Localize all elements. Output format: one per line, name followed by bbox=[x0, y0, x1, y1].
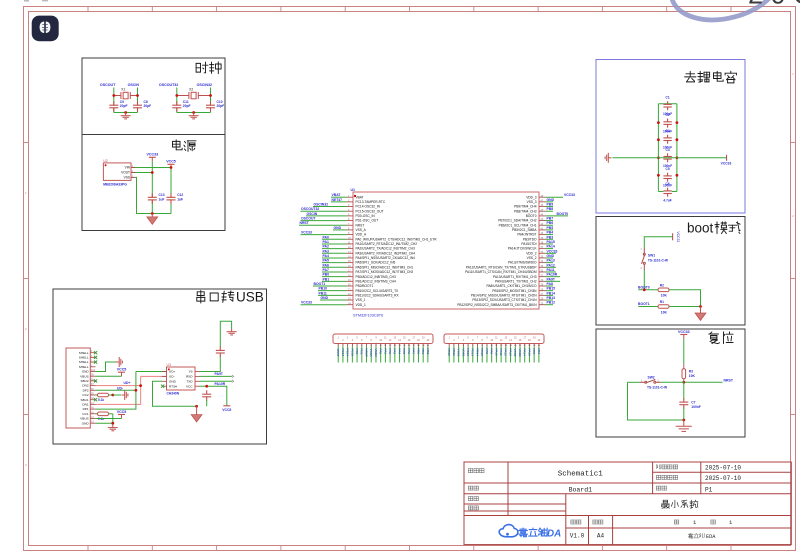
net port arrows bbox=[232, 375, 234, 382]
power flag VCC33 bbox=[680, 335, 687, 339]
wire P2 pin8 bbox=[481, 347, 483, 363]
svg-text:BOOT0: BOOT0 bbox=[557, 212, 569, 216]
svg-text:SW1: SW1 bbox=[648, 254, 655, 258]
svg-text:UD-: UD- bbox=[169, 375, 175, 379]
wire U1 pin33 net PA12 bbox=[546, 266, 557, 268]
wire VOUT-VCC33 bbox=[135, 172, 152, 174]
svg-text:PB12/SPI2_NSS/I2C2_SMBA/USART3: PB12/SPI2_NSS/I2C2_SMBA/USART3_CK/TIM1_B… bbox=[457, 303, 537, 307]
wire U1 pin40 net PB4 bbox=[546, 234, 554, 236]
svg-text:PB0/ADC12_IN8/TIM3_CH3: PB0/ADC12_IN8/TIM3_CH3 bbox=[356, 275, 396, 279]
wire P1 pin20 bbox=[427, 347, 429, 363]
wire P1 pin1 bbox=[337, 347, 339, 363]
ground bbox=[191, 406, 202, 422]
svg-text:C13: C13 bbox=[159, 193, 165, 197]
svg-text:PB5: PB5 bbox=[547, 226, 554, 230]
svg-text:VBUS: VBUS bbox=[80, 374, 88, 378]
wire U1 pin12 net PA2 bbox=[322, 248, 347, 250]
svg-text:VSS_2: VSS_2 bbox=[527, 256, 537, 260]
svg-text:20pF: 20pF bbox=[183, 104, 191, 108]
power flag VCC5 bbox=[118, 372, 125, 376]
wire P2 pin10 bbox=[491, 347, 493, 363]
svg-text:CC1: CC1 bbox=[82, 412, 88, 416]
no-connect RTS# bbox=[161, 385, 164, 388]
wire P1 pin10 bbox=[380, 347, 382, 363]
junction bbox=[192, 111, 195, 114]
junction bbox=[205, 385, 208, 388]
svg-text:VCC33: VCC33 bbox=[301, 231, 312, 235]
wire VBUS bbox=[96, 375, 122, 377]
wire SW1 to BOOT0 bbox=[643, 270, 645, 290]
capacitor C15 bbox=[202, 395, 211, 397]
svg-text:VSS_3: VSS_3 bbox=[527, 200, 537, 204]
ground bbox=[121, 113, 131, 119]
svg-text:PB3: PB3 bbox=[532, 349, 536, 355]
pin stubs U1 bbox=[347, 197, 546, 305]
section box 串口转USB bbox=[53, 289, 267, 444]
junction bbox=[112, 94, 115, 97]
wire P2 pin9 bbox=[486, 347, 488, 363]
svg-text:VSS2: VSS2 bbox=[513, 349, 517, 357]
title 复位 bbox=[709, 332, 733, 344]
svg-text:PA15: PA15 bbox=[547, 240, 555, 244]
svg-text:PB9/TIM4_CH4: PB9/TIM4_CH4 bbox=[514, 205, 537, 209]
svg-text:PB8: PB8 bbox=[547, 207, 554, 211]
svg-text:GND: GND bbox=[82, 370, 90, 374]
wire U1 pin26 net PB13 bbox=[546, 299, 554, 301]
capacitor C13 bbox=[148, 198, 157, 200]
svg-text:PB0: PB0 bbox=[323, 273, 330, 277]
wire net OSCIN bbox=[137, 88, 139, 113]
svg-text:C2: C2 bbox=[666, 113, 670, 117]
wire U1 pin11 net PA1 bbox=[322, 243, 347, 245]
title 电源 bbox=[173, 140, 197, 152]
wire U1 pin1 net VBAT bbox=[331, 196, 347, 198]
svg-text:R1: R1 bbox=[660, 300, 664, 304]
svg-text:PC14: PC14 bbox=[346, 349, 350, 357]
svg-text:PB5/I2C1_SMBA: PB5/I2C1_SMBA bbox=[512, 228, 537, 232]
wire U1 pin35 net GND bbox=[546, 257, 554, 259]
wire V3 to cap bbox=[200, 321, 232, 371]
svg-text:VDD_A: VDD_A bbox=[356, 233, 368, 237]
svg-text:UD-: UD- bbox=[117, 386, 123, 390]
svg-text:2 0 C: 2 0 C bbox=[748, 0, 800, 10]
svg-text:VDD_2: VDD_2 bbox=[526, 251, 537, 255]
junction bbox=[682, 419, 685, 422]
wire net OSCOUT32 bbox=[176, 88, 178, 113]
svg-text:PB6: PB6 bbox=[547, 221, 554, 225]
wire U1 pin22 net PB11 bbox=[318, 294, 347, 296]
section box 去耦电容 bbox=[596, 60, 745, 214]
wire U1 pin36 net VCC33 bbox=[546, 252, 557, 254]
wire VCC U3 bbox=[200, 386, 227, 406]
svg-text:PB2/BOOT1: PB2/BOOT1 bbox=[356, 284, 374, 288]
svg-text:PA5: PA5 bbox=[402, 349, 406, 355]
wire P1 pin17 bbox=[413, 347, 415, 363]
wire P1 pin19 bbox=[422, 347, 424, 363]
wire U1 pin21 net PB10 bbox=[318, 290, 347, 292]
ground (rotated) bbox=[605, 153, 611, 163]
svg-text:VIN: VIN bbox=[125, 166, 131, 170]
wire U1 pin47 net GND bbox=[546, 201, 554, 203]
wire U1 pin30 net PA9T bbox=[546, 280, 561, 282]
wire P1 pin14 bbox=[399, 347, 401, 363]
wire U1 pin5 net OSCIN bbox=[306, 215, 347, 217]
svg-text:PA14: PA14 bbox=[547, 245, 555, 249]
svg-text:VCC33: VCC33 bbox=[547, 249, 558, 253]
chip U3 bbox=[167, 367, 196, 390]
field 原理图 bbox=[468, 469, 484, 473]
svg-text:VDDA: VDDA bbox=[374, 349, 378, 359]
svg-text:OSCOUT: OSCOUT bbox=[100, 83, 116, 87]
wire CC2 gnd bbox=[113, 394, 121, 396]
svg-text:20pF: 20pF bbox=[144, 104, 152, 108]
svg-text:PA7: PA7 bbox=[323, 268, 329, 272]
svg-text:PA1: PA1 bbox=[383, 349, 387, 355]
svg-text:PA4/SPI1_NSS/USART2_CK/ADC12_I: PA4/SPI1_NSS/USART2_CK/ADC12_IN4 bbox=[356, 256, 416, 260]
wire U1 pin19 net PB1 bbox=[322, 280, 347, 282]
svg-text:PB7: PB7 bbox=[547, 217, 554, 221]
svg-text:C5: C5 bbox=[666, 167, 670, 171]
wire NRST to C7 bbox=[683, 382, 685, 399]
pin stubs U3 bbox=[162, 372, 200, 387]
wire U1 pin9 net VCC33 bbox=[301, 234, 347, 236]
connector P2 bbox=[444, 334, 544, 344]
svg-text:PC13-TAMPER-RTC: PC13-TAMPER-RTC bbox=[356, 200, 386, 204]
svg-text:GND: GND bbox=[334, 226, 342, 230]
field 尺寸 bbox=[593, 520, 603, 524]
svg-text:VCC33: VCC33 bbox=[564, 193, 575, 197]
wire U1 pin6 net OSCOUT bbox=[301, 220, 347, 222]
wire U1 pin43 net PB7 bbox=[546, 220, 554, 222]
wire U1 pin4 net OSCOUT32 bbox=[301, 210, 347, 212]
wire net UD+ (pink) bbox=[96, 376, 167, 404]
svg-text:VBAT: VBAT bbox=[356, 195, 364, 199]
svg-text:TS-1101-C-W: TS-1101-C-W bbox=[648, 258, 669, 262]
svg-text:PA13: PA13 bbox=[547, 259, 555, 263]
wire P2 pin11 bbox=[495, 347, 497, 363]
wire U1 pin34 net PA13 bbox=[546, 262, 554, 264]
svg-text:BOOT1: BOOT1 bbox=[638, 302, 650, 306]
svg-text:C10: C10 bbox=[217, 100, 223, 104]
svg-text:PA0: PA0 bbox=[323, 235, 329, 239]
power flag VCC5 bbox=[168, 164, 175, 168]
svg-text:PA13: PA13 bbox=[509, 349, 513, 357]
svg-text:PA10: PA10 bbox=[494, 349, 498, 357]
svg-text:PD0-OSC_IN: PD0-OSC_IN bbox=[356, 214, 376, 218]
junction bbox=[139, 384, 142, 387]
svg-text:PA9T: PA9T bbox=[215, 372, 224, 376]
wire U1 pin23 net GND bbox=[320, 299, 347, 301]
svg-text:OSCOUT: OSCOUT bbox=[301, 217, 316, 221]
wire U1 pin38 net PA15 bbox=[546, 243, 554, 245]
svg-text:SHELL: SHELL bbox=[79, 351, 89, 355]
svg-text:PA4: PA4 bbox=[398, 349, 402, 355]
svg-text:PA3: PA3 bbox=[323, 249, 329, 253]
regulator U2 bbox=[103, 163, 131, 181]
ground bbox=[676, 420, 692, 431]
ground (rotated) bbox=[122, 390, 128, 400]
wire P2 pin6 bbox=[472, 347, 474, 363]
svg-text:PA5/SPI1_SCK/ADC12_IN5: PA5/SPI1_SCK/ADC12_IN5 bbox=[356, 261, 396, 265]
wire U1 pin37 net PA14 bbox=[546, 248, 554, 250]
svg-text:PA15: PA15 bbox=[527, 349, 531, 357]
svg-text:UD+: UD+ bbox=[124, 381, 131, 385]
svg-text:DP1: DP1 bbox=[83, 407, 89, 411]
svg-text:TXD: TXD bbox=[186, 379, 193, 383]
svg-text:GND: GND bbox=[547, 198, 555, 202]
svg-text:PB11: PB11 bbox=[319, 291, 327, 295]
svg-text:PC15: PC15 bbox=[350, 349, 354, 357]
svg-text:A4: A4 bbox=[597, 533, 605, 540]
wire U1 pin46 net PB9 bbox=[546, 206, 554, 208]
svg-text:C8: C8 bbox=[144, 100, 148, 104]
svg-text:VBAT: VBAT bbox=[336, 349, 340, 357]
wire gnd rail bbox=[114, 112, 138, 114]
svg-text:VCC5: VCC5 bbox=[117, 410, 127, 414]
title 去耦电容 bbox=[685, 71, 737, 83]
svg-text:PB1: PB1 bbox=[421, 349, 425, 355]
svg-text:1uF: 1uF bbox=[159, 198, 165, 202]
svg-text:VDD_3: VDD_3 bbox=[526, 195, 537, 199]
svg-text:PB14/SPI2_MISO/USART3_RTS/TIM1: PB14/SPI2_MISO/USART3_RTS/TIM1_CH2N bbox=[471, 293, 537, 297]
pin numbers U1 bbox=[348, 195, 544, 305]
svg-text:boot: boot bbox=[687, 221, 714, 236]
svg-text:1uF: 1uF bbox=[177, 198, 183, 202]
wire net VCC5 vertical bbox=[170, 168, 172, 213]
wire cap to gnd rail bbox=[206, 400, 208, 406]
wire P1 pin16 bbox=[408, 347, 410, 363]
svg-text:NRST: NRST bbox=[364, 349, 368, 358]
svg-text:USB: USB bbox=[236, 290, 264, 305]
wire decoupling rails bbox=[658, 104, 677, 192]
svg-text:PB1: PB1 bbox=[323, 277, 330, 281]
wire VCC33 to R3 bbox=[683, 339, 685, 364]
svg-text:PD1-OSC_OUT: PD1-OSC_OUT bbox=[356, 219, 379, 223]
wire CC1 down bbox=[112, 414, 114, 423]
wire U1 pin48 net VCC33 bbox=[546, 196, 564, 198]
svg-text:PB7/I2C1_SDA/TIM4_CH2: PB7/I2C1_SDA/TIM4_CH2 bbox=[498, 219, 536, 223]
title 串口转USB bbox=[197, 291, 234, 304]
svg-text:U2: U2 bbox=[103, 159, 107, 163]
wire P2 pin14 bbox=[510, 347, 512, 363]
wire P2 pin20 bbox=[538, 347, 540, 363]
svg-text:VCC5: VCC5 bbox=[166, 159, 176, 163]
svg-text:X2: X2 bbox=[189, 88, 193, 92]
svg-text:Board1: Board1 bbox=[569, 486, 593, 493]
wire P1 pin5 bbox=[356, 347, 358, 363]
svg-text:PA0: PA0 bbox=[379, 349, 383, 355]
wire P1 pin4 bbox=[351, 347, 353, 363]
svg-text:PB4/JNTRST: PB4/JNTRST bbox=[517, 233, 536, 237]
wire U1 pin17 net PA7 bbox=[322, 271, 347, 273]
field 画页 bbox=[656, 486, 666, 490]
wire P2 pin12 bbox=[500, 347, 502, 363]
wire P1 pin11 bbox=[384, 347, 386, 363]
svg-text:PB13/SPI2_SCK/USART3_CTS/TIM1_: PB13/SPI2_SCK/USART3_CTS/TIM1_CH1N bbox=[472, 298, 537, 302]
wire U1 pin29 net PA8 bbox=[546, 285, 554, 287]
svg-text:NRST: NRST bbox=[724, 378, 734, 382]
svg-text:SBU2: SBU2 bbox=[81, 379, 89, 383]
svg-text:NRST: NRST bbox=[300, 221, 310, 225]
svg-text:SBU1: SBU1 bbox=[81, 398, 89, 402]
svg-text:PB10/I2C2_SCL/USART3_TX: PB10/I2C2_SCL/USART3_TX bbox=[356, 289, 400, 293]
svg-text:PB13: PB13 bbox=[547, 296, 556, 300]
svg-text:VOUT: VOUT bbox=[121, 171, 130, 175]
svg-text:PA10R: PA10R bbox=[215, 382, 226, 386]
svg-text:PA9: PA9 bbox=[490, 349, 494, 355]
resistor R5 5.1k bbox=[96, 413, 98, 415]
wire R1 to gnd bbox=[669, 306, 701, 308]
wire U1 pin14 net PA4 bbox=[322, 257, 347, 259]
svg-text:NET47: NET47 bbox=[332, 198, 343, 202]
pin stubs USB1 bbox=[90, 353, 95, 424]
svg-text:PB4: PB4 bbox=[537, 349, 541, 355]
wire U1 pin8 net GND bbox=[333, 229, 347, 231]
svg-text:PA9/USART1_TX/TIM1_CH2: PA9/USART1_TX/TIM1_CH2 bbox=[495, 279, 537, 283]
crystal X2 bbox=[177, 92, 211, 99]
svg-text:PB6/I2C1_SCL/TIM4_CH1: PB6/I2C1_SCL/TIM4_CH1 bbox=[499, 223, 537, 227]
no-connect marks bbox=[94, 351, 97, 401]
svg-text:VDD_1: VDD_1 bbox=[356, 303, 367, 307]
wire U1 pin44 net BOOT0 bbox=[546, 215, 569, 217]
wire P1 pin12 bbox=[389, 347, 391, 363]
svg-text:PA8: PA8 bbox=[485, 349, 489, 355]
svg-text:10K: 10K bbox=[661, 294, 668, 298]
svg-text:PB8/TIM4_CH3: PB8/TIM4_CH3 bbox=[514, 209, 537, 213]
svg-text:PB11/I2C2_SDA/USART3_RX: PB11/I2C2_SDA/USART3_RX bbox=[356, 293, 400, 297]
svg-text:PA1/USART2_RTS/ADC12_IN1/TIM2_: PA1/USART2_RTS/ADC12_IN1/TIM2_CH2 bbox=[356, 242, 418, 246]
svg-text:PB1/ADC12_IN9/TIM3_CH4: PB1/ADC12_IN9/TIM3_CH4 bbox=[356, 279, 396, 283]
svg-text:20pF: 20pF bbox=[217, 104, 225, 108]
wire P1 pin7 bbox=[366, 347, 368, 363]
svg-text:PA7/SPI1_MOSI/ADC12_IN7/TIM3_C: PA7/SPI1_MOSI/ADC12_IN7/TIM3_CH2 bbox=[356, 270, 414, 274]
svg-text:C4: C4 bbox=[666, 148, 670, 152]
svg-text:PA2: PA2 bbox=[323, 245, 329, 249]
wire net UD- (green+pink) bbox=[96, 372, 167, 410]
svg-text:VBUS: VBUS bbox=[80, 417, 88, 421]
svg-text:PA11: PA11 bbox=[499, 349, 503, 356]
svg-text:U1: U1 bbox=[351, 188, 356, 192]
wire U1 pin3 net OSCIN32 bbox=[313, 206, 347, 208]
svg-text:PB14: PB14 bbox=[475, 349, 479, 357]
power flag VCC33 (rotated) bbox=[672, 233, 674, 240]
svg-text:PB13: PB13 bbox=[471, 349, 475, 357]
svg-text:OSCOUT32: OSCOUT32 bbox=[159, 83, 178, 87]
svg-text:C1: C1 bbox=[666, 96, 670, 100]
svg-text:VCC33: VCC33 bbox=[721, 161, 732, 165]
svg-text:PA13/JTMS/SWDIO: PA13/JTMS/SWDIO bbox=[508, 261, 537, 265]
svg-text:PA11/USART1_CTS/CAN_RX/TIM1_CH: PA11/USART1_CTS/CAN_RX/TIM1_CH4/USBDM bbox=[465, 270, 537, 274]
svg-text:SHELL: SHELL bbox=[79, 360, 89, 364]
svg-text:20pF: 20pF bbox=[120, 104, 128, 108]
wire U1 pin45 net PB8 bbox=[546, 210, 554, 212]
wire P2 pin5 bbox=[467, 347, 469, 363]
power flag VCC5 bbox=[118, 415, 125, 419]
field 嘉立创EDA text bbox=[688, 533, 704, 538]
svg-text:OSCIN: OSCIN bbox=[128, 83, 140, 87]
junction bbox=[175, 94, 178, 97]
wire U1 pin10 net PA0 bbox=[322, 238, 347, 240]
svg-text:PB3: PB3 bbox=[547, 235, 554, 239]
wire P2 pin19 bbox=[533, 347, 535, 363]
wire BOOT1 row bbox=[638, 306, 658, 308]
wire GND2 bbox=[96, 422, 113, 424]
capacitor C7 100nF bbox=[679, 403, 688, 405]
wire P1 pin9 bbox=[375, 347, 377, 363]
svg-text:DP2: DP2 bbox=[83, 388, 89, 392]
svg-text:PB12: PB12 bbox=[547, 301, 556, 305]
svg-text:V1.0: V1.0 bbox=[570, 533, 585, 540]
svg-text:VSS: VSS bbox=[124, 176, 130, 180]
svg-text:U3: U3 bbox=[167, 363, 171, 367]
title block bbox=[464, 462, 791, 545]
svg-text:C11: C11 bbox=[183, 100, 189, 104]
capacitor C10 bbox=[206, 106, 215, 108]
svg-text:ME6206A33PG: ME6206A33PG bbox=[103, 183, 127, 187]
ground bbox=[695, 307, 706, 321]
svg-text:VSS_A: VSS_A bbox=[356, 228, 367, 232]
svg-text:PA6: PA6 bbox=[323, 263, 329, 267]
svg-text:CC2: CC2 bbox=[82, 393, 88, 397]
MCU U1 STM32F103C8T6 bbox=[353, 192, 539, 309]
capacitor C14 bbox=[216, 351, 225, 353]
svg-text:PA3: PA3 bbox=[393, 349, 397, 355]
wire P1 pin2 bbox=[342, 347, 344, 363]
svg-text:PA11: PA11 bbox=[547, 268, 555, 272]
wire U1 pin7 net NRST bbox=[299, 224, 347, 226]
svg-text:PB10: PB10 bbox=[447, 349, 451, 357]
wire P1 pin3 bbox=[347, 347, 349, 363]
ground (rotated) bbox=[116, 357, 122, 367]
svg-text:PC15-OSC32_OUT: PC15-OSC32_OUT bbox=[356, 209, 384, 213]
svg-text:SHELL: SHELL bbox=[79, 356, 89, 360]
wire TXD PA10R bbox=[200, 380, 232, 382]
svg-text:PA0_WKUP/USART2_CTS/ADC12_IN0/: PA0_WKUP/USART2_CTS/ADC12_IN0/TIM2_CH1_E… bbox=[356, 237, 438, 241]
junction bbox=[151, 171, 154, 174]
svg-text:PA5: PA5 bbox=[323, 259, 329, 263]
wire U1 pin27 net PB14 bbox=[546, 294, 554, 296]
wire U1 pin41 net PB5 bbox=[546, 229, 554, 231]
ground bbox=[147, 214, 158, 225]
svg-text:B12: B12 bbox=[91, 370, 96, 372]
svg-text:PA9T: PA9T bbox=[547, 277, 556, 281]
svg-text:PA6/SPI1_MISO/ADC12_IN6/TIM3_C: PA6/SPI1_MISO/ADC12_IN6/TIM3_CH1 bbox=[356, 265, 414, 269]
svg-text:5.1k: 5.1k bbox=[98, 398, 104, 402]
wire P1 pin6 bbox=[361, 347, 363, 363]
svg-text:OSCIN32: OSCIN32 bbox=[197, 83, 212, 87]
title 时钟 bbox=[196, 62, 221, 74]
svg-text:PB11: PB11 bbox=[452, 349, 456, 357]
wire R2 to R1 bbox=[669, 290, 701, 307]
svg-text:C9: C9 bbox=[120, 100, 124, 104]
junction bbox=[195, 405, 198, 408]
wire VIN-VCC5 bbox=[135, 167, 171, 169]
svg-text:RTS#: RTS# bbox=[169, 384, 177, 388]
wire BOOT0 row bbox=[638, 289, 658, 291]
svg-text:C7: C7 bbox=[691, 400, 695, 404]
svg-text:SHELL: SHELL bbox=[79, 365, 89, 369]
junction bbox=[124, 111, 127, 114]
wire gnd rail bbox=[177, 112, 211, 114]
svg-text:GND: GND bbox=[321, 296, 329, 300]
svg-text:C3: C3 bbox=[666, 129, 670, 133]
field 版本 bbox=[571, 520, 581, 524]
svg-text:V3: V3 bbox=[189, 370, 193, 374]
resistor R2 10K bbox=[658, 288, 669, 292]
svg-text:PA14: PA14 bbox=[523, 349, 527, 357]
svg-text:PB3/TDO: PB3/TDO bbox=[523, 237, 537, 241]
wire U1 pin13 net PA3 bbox=[322, 252, 347, 254]
